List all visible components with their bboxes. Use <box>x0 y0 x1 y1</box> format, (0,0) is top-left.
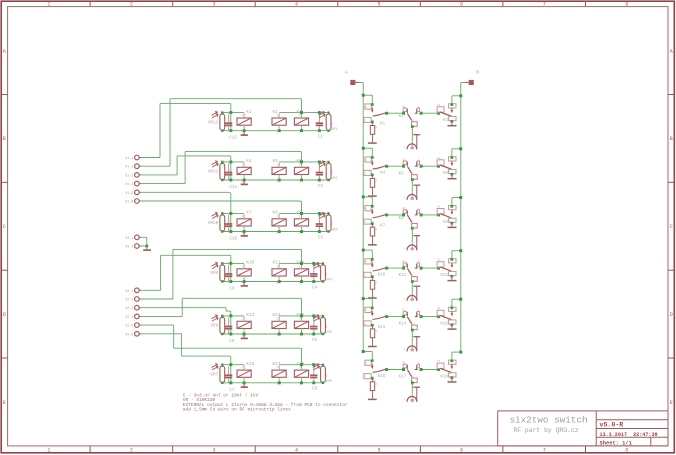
svg-text:B: B <box>476 69 479 75</box>
svg-text:D: D <box>3 312 6 318</box>
svg-text:K1: K1 <box>246 110 252 115</box>
svg-text:C8: C8 <box>229 339 235 344</box>
svg-text:six2two switch: six2two switch <box>509 414 587 425</box>
svg-text:K17: K17 <box>273 362 281 367</box>
svg-text:5: 5 <box>378 2 381 8</box>
svg-text:R: R <box>376 330 378 333</box>
svg-text:1: 1 <box>242 114 244 117</box>
svg-text:A: A <box>345 69 348 75</box>
svg-text:K16: K16 <box>246 362 254 367</box>
svg-text:K2: K2 <box>273 110 279 115</box>
svg-text:VR12: VR12 <box>208 120 219 125</box>
svg-text:3: 3 <box>212 2 215 8</box>
svg-text:v5.0-R: v5.0-R <box>600 422 624 429</box>
svg-text:VR4: VR4 <box>325 279 333 283</box>
svg-text:n: n <box>404 348 406 351</box>
svg-text:X3-2: X3-2 <box>125 245 133 249</box>
svg-text:K10: K10 <box>378 274 386 278</box>
svg-text:K18: K18 <box>440 376 448 380</box>
svg-text:0: 0 <box>365 261 367 264</box>
svg-text:5: 5 <box>378 448 381 454</box>
svg-text:2: 2 <box>331 172 333 176</box>
svg-text:n: n <box>404 197 406 200</box>
svg-text:C12: C12 <box>229 136 237 141</box>
svg-text:6: 6 <box>460 2 463 8</box>
svg-text:X2-3: X2-3 <box>125 306 133 310</box>
svg-text:D: D <box>670 312 673 318</box>
svg-text:VR8: VR8 <box>210 324 218 329</box>
svg-text:X2-2: X2-2 <box>125 298 133 302</box>
svg-text:K1: K1 <box>380 123 386 127</box>
svg-text:K11: K11 <box>273 261 281 266</box>
svg-text:VR2: VR2 <box>331 177 339 181</box>
svg-text:VR9: VR9 <box>210 271 218 276</box>
svg-text:n: n <box>404 298 406 301</box>
svg-text:K14: K14 <box>273 313 281 318</box>
svg-text:4: 4 <box>295 2 298 8</box>
svg-text:K15: K15 <box>440 323 448 327</box>
svg-text:K17: K17 <box>399 376 407 380</box>
svg-text:R: R <box>376 383 378 386</box>
svg-text:K13: K13 <box>246 313 254 318</box>
svg-text:X1-1: X1-1 <box>125 156 133 160</box>
svg-text:8: 8 <box>625 2 628 8</box>
svg-text:B: B <box>670 136 673 142</box>
svg-text:RF part by QRO.cz: RF part by QRO.cz <box>513 427 578 434</box>
svg-text:C5: C5 <box>312 338 318 343</box>
svg-text:C4: C4 <box>312 285 318 290</box>
svg-text:2: 2 <box>331 224 333 228</box>
svg-text:1: 1 <box>47 2 50 8</box>
svg-text:K14: K14 <box>399 323 407 327</box>
svg-text:2: 2 <box>130 2 133 8</box>
svg-text:0: 0 <box>365 309 367 312</box>
svg-text:K10: K10 <box>246 261 254 266</box>
svg-text:6: 6 <box>460 448 463 454</box>
svg-text:X1-3: X1-3 <box>125 173 133 177</box>
svg-text:2: 2 <box>325 375 327 379</box>
svg-text:VR1: VR1 <box>331 128 339 132</box>
svg-text:2: 2 <box>331 123 333 127</box>
svg-text:0: 0 <box>365 159 367 162</box>
svg-text:X2-4: X2-4 <box>125 315 133 319</box>
svg-text:n: n <box>404 247 406 250</box>
svg-text:K8: K8 <box>399 217 405 221</box>
svg-text:1: 1 <box>242 215 244 218</box>
svg-text:A: A <box>670 48 673 54</box>
svg-text:VR10: VR10 <box>208 221 219 226</box>
svg-text:2: 2 <box>130 448 133 454</box>
svg-text:R: R <box>376 180 378 183</box>
svg-text:X1-5: X1-5 <box>125 191 133 195</box>
svg-text:C7: C7 <box>229 388 235 393</box>
svg-text:VR6: VR6 <box>325 380 333 384</box>
svg-text:0: 0 <box>365 106 367 109</box>
svg-text:K3: K3 <box>443 119 449 123</box>
svg-text:E: E <box>670 400 673 406</box>
svg-text:8: 8 <box>625 448 628 454</box>
svg-text:K11: K11 <box>399 274 407 278</box>
svg-text:K13: K13 <box>378 326 386 330</box>
svg-text:C10: C10 <box>229 237 237 242</box>
svg-text:VR11: VR11 <box>208 170 219 175</box>
svg-text:K7: K7 <box>246 211 252 216</box>
svg-text:add 1,5mm Cu wire on RF micros: add 1,5mm Cu wire on RF microstrip lines <box>183 407 291 413</box>
svg-text:n: n <box>404 146 406 149</box>
svg-text:X2-5: X2-5 <box>125 324 133 328</box>
svg-text:K5: K5 <box>273 159 279 164</box>
svg-text:X1-2: X1-2 <box>125 165 133 169</box>
svg-text:VR3: VR3 <box>331 229 339 233</box>
svg-text:X1-6: X1-6 <box>125 200 133 204</box>
svg-text:B: B <box>3 136 6 142</box>
svg-text:K12: K12 <box>440 274 448 278</box>
svg-text:7: 7 <box>543 448 546 454</box>
svg-text:K7: K7 <box>380 224 386 228</box>
svg-text:Sheet: 1/1: Sheet: 1/1 <box>600 441 632 447</box>
svg-text:R: R <box>376 228 378 231</box>
svg-text:1: 1 <box>242 163 244 166</box>
svg-text:3: 3 <box>212 448 215 454</box>
svg-text:E: E <box>3 400 6 406</box>
svg-text:K5: K5 <box>399 172 405 176</box>
svg-text:C3: C3 <box>318 235 324 240</box>
svg-text:A: A <box>3 48 6 54</box>
svg-text:K16: K16 <box>378 375 386 379</box>
svg-text:C6: C6 <box>312 387 318 392</box>
svg-text:1: 1 <box>242 265 244 268</box>
svg-text:K4: K4 <box>246 159 252 164</box>
svg-text:VR5: VR5 <box>325 331 333 335</box>
svg-text:C: C <box>3 224 6 230</box>
svg-text:R: R <box>376 282 378 285</box>
svg-text:1: 1 <box>47 448 50 454</box>
svg-text:0: 0 <box>365 208 367 211</box>
svg-text:R: R <box>376 127 378 130</box>
svg-text:K9: K9 <box>443 221 449 225</box>
svg-text:K8: K8 <box>273 211 279 216</box>
svg-text:C1: C1 <box>318 135 324 140</box>
svg-text:C11: C11 <box>229 185 237 190</box>
svg-text:4: 4 <box>295 448 298 454</box>
svg-text:C: C <box>670 224 673 230</box>
svg-text:K4: K4 <box>380 172 386 176</box>
svg-text:2: 2 <box>325 274 327 278</box>
svg-text:7: 7 <box>543 2 546 8</box>
svg-text:2: 2 <box>325 326 327 330</box>
svg-text:K2: K2 <box>399 115 405 119</box>
svg-text:X2-6: X2-6 <box>125 332 133 336</box>
svg-text:VR7: VR7 <box>210 372 218 377</box>
svg-text:1: 1 <box>242 366 244 369</box>
svg-text:C2: C2 <box>318 184 324 189</box>
svg-text:X2-1: X2-1 <box>125 289 133 293</box>
svg-text:X1-4: X1-4 <box>125 182 133 186</box>
svg-text:X3-1: X3-1 <box>125 236 133 240</box>
svg-text:n: n <box>404 399 406 402</box>
svg-text:0: 0 <box>365 362 367 365</box>
svg-text:C9: C9 <box>229 287 235 292</box>
svg-text:K6: K6 <box>443 172 449 176</box>
svg-text:13.3.2017 22:47:38: 13.3.2017 22:47:38 <box>600 432 658 438</box>
svg-text:1: 1 <box>242 317 244 320</box>
